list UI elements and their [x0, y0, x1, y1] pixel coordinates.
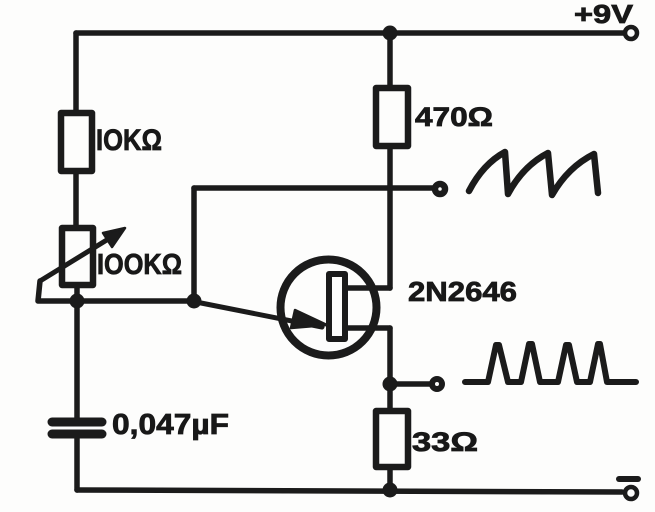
junction node bottom rail — [383, 483, 398, 498]
potentiometer P1 wiper return wire — [38, 281, 70, 301]
wire bottom ground rail — [77, 490, 622, 492]
junction node A pot-cap-emitter — [70, 294, 85, 309]
wire 33 ohm bottom to rail — [387, 467, 393, 490]
wire node A down to capacitor — [74, 302, 80, 418]
junction node top rail — [383, 26, 398, 41]
svg-text:IOOKΩ: IOOKΩ — [97, 249, 182, 281]
wire B1 horizontal out of transistor — [348, 325, 390, 331]
terminal +9V open circle — [625, 27, 637, 39]
wire left vertical from rail to R1 — [73, 33, 79, 113]
wire node A to node B horizontal — [77, 298, 194, 304]
potentiometer P1 wiper arrow — [40, 238, 110, 281]
waveform pulse train — [465, 344, 636, 382]
junction node pulse output — [383, 377, 398, 392]
wire node B up to sawtooth output line — [191, 188, 197, 301]
transistor Q1 base bar — [329, 274, 345, 339]
terminal 0V bar — [619, 476, 638, 482]
wire pot bottom to emitter node — [74, 285, 80, 302]
wire top rail +9V — [76, 30, 624, 36]
wire sawtooth output horizontal — [194, 185, 433, 191]
terminal pulse output bullseye — [432, 379, 442, 389]
resistor R1 10K ohm body — [61, 113, 92, 171]
wire pulse node to terminal — [390, 381, 430, 387]
svg-text:0,047µF: 0,047µF — [112, 409, 229, 441]
wire 470 ohm to B2 corner — [387, 146, 393, 288]
wire B1 down to pulse node — [387, 328, 393, 384]
svg-text:470Ω: 470Ω — [415, 102, 493, 132]
transistor Q1 2N2646 envelope circle — [281, 260, 377, 356]
wire capacitor bottom to ground rail — [74, 438, 80, 490]
wire pulse node down to 33 ohm — [387, 384, 393, 411]
junction node B emitter tap — [187, 294, 202, 309]
wire B2 horizontal into transistor — [348, 285, 390, 291]
resistor R2 470 ohm body — [376, 88, 408, 146]
waveform sawtooth — [469, 152, 598, 195]
svg-text:+9V: +9V — [574, 0, 634, 29]
transistor Q1 emitter lead with arrow — [196, 302, 322, 327]
svg-text:2N2646: 2N2646 — [408, 276, 517, 307]
capacitor C1 0,047uF top plate — [52, 418, 102, 427]
terminal 0V circle — [625, 487, 637, 499]
wire R1 bottom to pot top — [73, 171, 79, 228]
resistor R3 33 ohm body — [376, 411, 408, 467]
terminal sawtooth output bullseye — [435, 184, 445, 194]
capacitor C1 0,047uF bottom plate — [52, 430, 102, 439]
wire rail to 470 ohm resistor — [387, 33, 393, 88]
potentiometer P1 100K ohm body — [62, 228, 93, 285]
svg-text:IOKΩ: IOKΩ — [96, 124, 162, 157]
svg-text:33Ω: 33Ω — [412, 427, 478, 457]
